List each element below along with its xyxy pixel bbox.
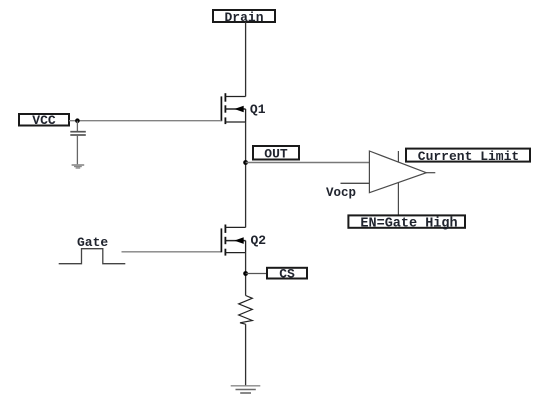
wire <box>246 162 370 164</box>
wire <box>122 251 222 253</box>
wire <box>397 151 399 215</box>
node VCC <box>19 113 69 128</box>
ground <box>72 164 85 169</box>
junction <box>243 271 248 276</box>
wire <box>69 120 221 122</box>
resistor R1 <box>239 296 253 325</box>
wire <box>245 22 247 97</box>
svg-text:Q2: Q2 <box>251 233 267 248</box>
svg-text:CS: CS <box>279 266 295 281</box>
wire <box>245 253 247 296</box>
svg-text:Vocp: Vocp <box>326 186 356 200</box>
wire <box>245 122 247 227</box>
svg-text:VCC: VCC <box>32 113 56 128</box>
junction <box>243 160 248 165</box>
transistor Q1 <box>221 93 265 124</box>
svg-text:Drain: Drain <box>224 10 263 25</box>
wire <box>245 324 247 385</box>
svg-text:OUT: OUT <box>264 147 288 162</box>
op-amp U1 <box>369 151 435 193</box>
node Drain <box>213 10 275 25</box>
svg-text:Gate: Gate <box>77 235 108 250</box>
capacitor C1 <box>70 121 86 165</box>
svg-text:EN=Gate High: EN=Gate High <box>360 216 457 231</box>
node OUT <box>253 146 299 162</box>
node Vocp <box>326 183 369 200</box>
ground <box>231 386 261 393</box>
junction <box>75 118 80 123</box>
waveform pulse <box>59 249 126 264</box>
svg-text:Current Limit: Current Limit <box>418 149 519 164</box>
wire <box>246 273 267 275</box>
node Current Limit <box>406 149 530 164</box>
node EN=Gate High <box>348 215 465 231</box>
node CS <box>267 266 307 281</box>
svg-text:Q1: Q1 <box>250 102 266 117</box>
transistor Q2 <box>221 225 266 256</box>
